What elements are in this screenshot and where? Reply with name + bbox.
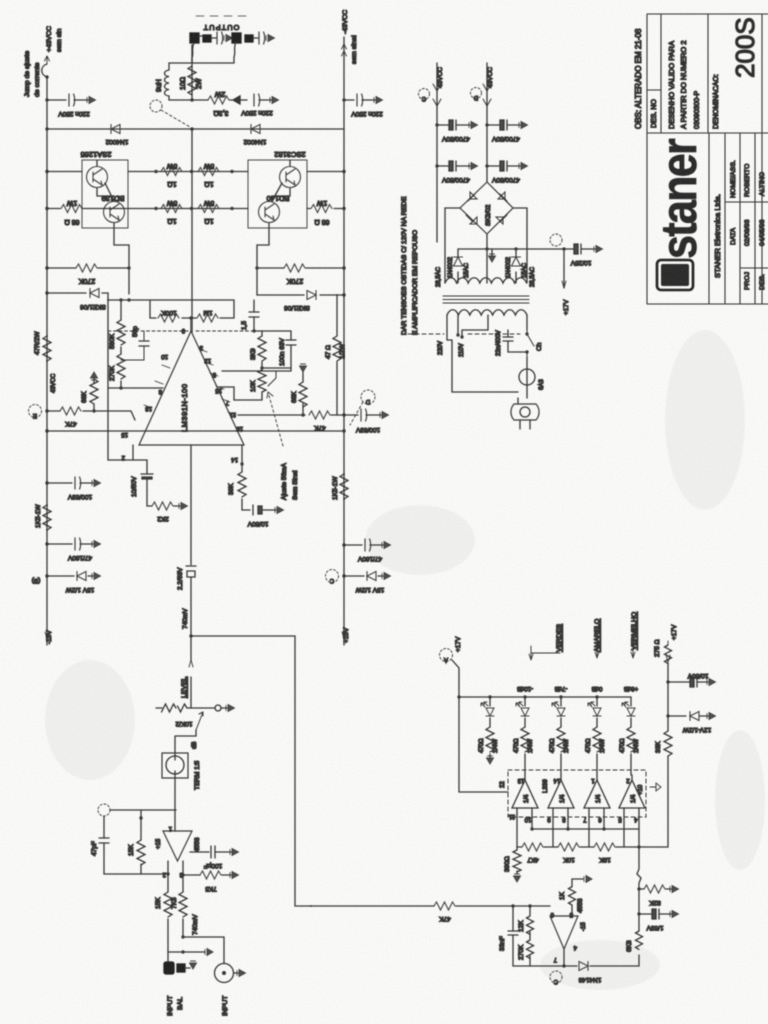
op-amp U3d — [619, 780, 645, 808]
mains dashed line — [408, 333, 520, 335]
svg-text:1/4: 1/4 — [560, 794, 566, 803]
output connector J1 — [190, 33, 211, 43]
svg-text:18: 18 — [145, 405, 152, 411]
svg-text:15: 15 — [121, 431, 128, 437]
resistor 12K — [527, 906, 534, 940]
node D dashed circle — [361, 390, 375, 404]
svg-text:03090300-P: 03090300-P — [694, 91, 701, 129]
svg-text:470Ω: 470Ω — [586, 738, 592, 753]
svg-text:D: D — [365, 398, 370, 404]
pot 10K/2 — [187, 700, 191, 708]
svg-text:VERMELHO: VERMELHO — [631, 612, 638, 650]
svg-text:2K2: 2K2 — [157, 515, 169, 522]
svg-text:39K: 39K — [228, 483, 235, 495]
wire top joint — [191, 45, 193, 100]
ground — [224, 35, 233, 42]
svg-text:470Ω: 470Ω — [550, 738, 556, 753]
cap 10/50V pin14 — [253, 505, 276, 515]
op-amp U2 4558 — [163, 831, 192, 861]
resistor 15K fb — [137, 840, 145, 865]
svg-text:+17V: +17V — [563, 299, 570, 315]
svg-text:5W: 5W — [166, 162, 177, 169]
cap 22n/400V — [503, 330, 520, 352]
node a dashed circle — [98, 804, 110, 816]
svg-text:+15V: +15V — [343, 627, 350, 643]
svg-text:740mV: 740mV — [192, 914, 199, 935]
resistor 1K5-1W left — [43, 505, 51, 530]
svg-text:de corrente: de corrente — [34, 62, 41, 97]
cap 220n right bus — [342, 98, 345, 101]
cap 47/160 left — [45, 542, 48, 545]
connector jack INPUT BAL — [164, 962, 185, 974]
svg-text:12K: 12K — [518, 920, 525, 932]
svg-text:DESENHO VALIDO PARA: DESENHO VALIDO PARA — [667, 41, 676, 129]
svg-text:47R/2W: 47R/2W — [34, 331, 41, 355]
svg-text:C: C — [329, 577, 334, 583]
svg-text:4558: 4558 — [577, 898, 584, 913]
svg-text:10Ω: 10Ω — [180, 77, 187, 90]
svg-text:-7dB: -7dB — [555, 685, 568, 691]
wire right bus — [343, 37, 345, 645]
svg-text:2.2/63V: 2.2/63V — [177, 567, 184, 590]
wires pins right — [219, 371, 291, 400]
svg-text:270K: 270K — [79, 277, 96, 284]
svg-text:1: 1 — [168, 825, 172, 831]
svg-text:270K: 270K — [287, 277, 304, 284]
svg-text:15AC: 15AC — [522, 262, 528, 278]
page frame — [761, 14, 763, 304]
staner logo — [651, 139, 707, 290]
svg-text:1/4W: 1/4W — [600, 739, 606, 753]
svg-text:+43VCC: +43VCC — [46, 26, 53, 52]
diode D1 1N4002 — [111, 125, 120, 134]
resistor 270K — [120, 352, 122, 388]
svg-text:1/4W: 1/4W — [528, 739, 534, 753]
wire 220V to plug — [447, 340, 518, 392]
svg-text:04/05/93: 04/05/93 — [759, 219, 766, 246]
svg-text:1/4W: 1/4W — [493, 739, 499, 753]
feedback wires — [110, 809, 176, 811]
resistor 3,3R 2W — [192, 99, 208, 101]
svg-text:OUTPUT: OUTPUT — [203, 23, 240, 32]
svg-text:5W: 5W — [203, 199, 214, 206]
resistor 33K — [664, 731, 672, 756]
svg-text:11: 11 — [508, 813, 515, 819]
resistor 68R 1W right — [307, 208, 344, 210]
zener 15V 1/2W right — [342, 574, 345, 577]
svg-text:8: 8 — [158, 388, 162, 394]
resistor 1M — [191, 300, 234, 318]
LED DL5 — [630, 697, 632, 706]
wire pin3 down — [182, 861, 184, 937]
svg-text:-43VCC: -43VCC — [342, 10, 349, 34]
svg-text:16: 16 — [236, 425, 243, 431]
inverting bus wire — [532, 814, 639, 829]
LED DL2 — [523, 695, 526, 698]
capacitor 100n 63V — [290, 331, 292, 368]
svg-text:(B): (B) — [32, 577, 41, 584]
right rail 1K5-1W — [340, 474, 348, 499]
node F dashed circle — [150, 100, 162, 112]
svg-text:+10: +10 — [638, 784, 644, 795]
svg-text:SK3/02: SK3/02 — [485, 204, 492, 226]
svg-text:100n 63V: 100n 63V — [279, 338, 286, 366]
op-amp U3b — [548, 780, 574, 808]
svg-text:4558: 4558 — [194, 837, 201, 852]
cap 100/63V left — [45, 481, 48, 484]
LED DL4 — [595, 695, 598, 698]
wire pin2 down — [167, 861, 169, 962]
svg-text:4700/50V: 4700/50V — [441, 135, 469, 142]
svg-text:L339: L339 — [542, 779, 549, 793]
svg-text:-15: -15 — [581, 922, 587, 931]
LED DL3 — [559, 695, 562, 698]
cap 4700/50V r1 left — [435, 123, 438, 126]
pin stubs — [144, 349, 236, 415]
svg-text:4700/50V: 4700/50V — [441, 176, 469, 183]
svg-text:0dB: 0dB — [592, 685, 603, 691]
svg-text:13: 13 — [204, 357, 211, 363]
svg-text:DATA: DATA — [730, 227, 737, 245]
title block borders — [647, 14, 768, 304]
op-amp U4 — [550, 916, 578, 949]
wire left bus — [46, 77, 48, 645]
resistor 1R 5W — [198, 168, 219, 176]
node E dashed — [29, 405, 42, 418]
svg-text:DAR TENSOES OBTIDAS C/ 120V NA: DAR TENSOES OBTIDAS C/ 120V NA REDE — [401, 196, 408, 335]
svg-text:47K: 47K — [314, 424, 326, 431]
resistor 1R 5W row2b — [198, 205, 219, 213]
svg-text:2SC3182: 2SC3182 — [274, 150, 305, 159]
resistor 3K9 — [261, 331, 263, 368]
resistor 47R 1/2W — [336, 331, 338, 415]
op-amp U3c — [584, 780, 610, 808]
svg-text:10/25V: 10/25V — [570, 259, 591, 266]
svg-text:68 Ω: 68 Ω — [315, 218, 330, 225]
resistor 7K5 in — [179, 892, 187, 917]
resistor 47R/2W left bus — [43, 336, 51, 361]
comparator box L339 dashed — [508, 770, 646, 817]
primary taps — [447, 315, 527, 340]
zener 12V stub — [666, 714, 669, 717]
svg-text:A: A — [444, 656, 448, 662]
cap 220n 250V — [254, 94, 260, 106]
svg-text:6A3: 6A3 — [539, 379, 545, 390]
capacitor 1,5 — [253, 307, 255, 331]
cap 2.2/63V in line — [186, 566, 196, 636]
svg-text:1Ω: 1Ω — [167, 217, 176, 224]
wire 6K8 up — [637, 847, 641, 931]
input wire XLR — [183, 937, 224, 963]
svg-text:100pF: 100pF — [204, 862, 222, 869]
arrow mark — [230, 96, 247, 104]
svg-text:470Ω: 470Ω — [514, 738, 520, 753]
diode SKE1/06 left — [45, 291, 48, 294]
svg-text:47 Ω: 47 Ω — [325, 345, 332, 359]
node C rail — [419, 89, 430, 100]
resistor 68K left — [93, 378, 95, 411]
resistor 2K2 — [152, 502, 173, 510]
diode D2 1N4002 — [251, 125, 260, 134]
svg-text:1,5: 1,5 — [241, 321, 248, 330]
node D rail — [471, 88, 482, 99]
svg-text:D: D — [473, 94, 478, 100]
wire jack1 down — [192, 43, 194, 63]
svg-text:270K: 270K — [109, 365, 116, 381]
opamp U4 4558b input wire — [311, 905, 434, 907]
svg-text:SKE1/06: SKE1/06 — [80, 303, 106, 310]
svg-text:68K: 68K — [81, 391, 88, 403]
svg-text:1/63V: 1/63V — [646, 924, 664, 931]
bridge rectifier SK3/02 — [460, 182, 513, 234]
feedback top wire — [108, 300, 254, 318]
svg-text:15: 15 — [215, 387, 222, 393]
svg-text:1/2W: 1/2W — [339, 343, 346, 359]
svg-text:390Ω: 390Ω — [504, 856, 511, 872]
svg-text:2: 2 — [121, 454, 125, 460]
svg-text:3K9: 3K9 — [250, 348, 257, 360]
svg-text:4K7: 4K7 — [527, 856, 539, 863]
plug P1 — [526, 385, 528, 398]
node C marker — [550, 971, 562, 983]
wire to TERM — [175, 736, 196, 753]
cap 47pF — [99, 838, 109, 843]
long rail under triangle — [45, 429, 48, 432]
svg-text:Jump de ajuste: Jump de ajuste — [24, 51, 31, 97]
cap 4700/50V r2 right — [485, 164, 488, 167]
rail right row1 — [307, 171, 344, 173]
left input 47K — [45, 409, 48, 412]
svg-text:1Ω: 1Ω — [204, 217, 213, 224]
switch Ch — [527, 330, 534, 357]
svg-text:200S: 200S — [730, 17, 760, 78]
svg-text:1Ω: 1Ω — [167, 180, 176, 187]
transformer T1 — [445, 278, 527, 283]
inductor L1 9uH — [165, 63, 193, 100]
svg-text:9: 9 — [181, 327, 185, 333]
svg-text:1N4002: 1N4002 — [243, 138, 266, 145]
svg-text:68 Ω: 68 Ω — [65, 218, 80, 225]
svg-text:10K/2: 10K/2 — [175, 720, 192, 727]
svg-text:A PARTIR DO NUMERO 2: A PARTIR DO NUMERO 2 — [679, 41, 688, 130]
svg-text:10: 10 — [524, 816, 531, 822]
wire below left box — [114, 223, 129, 294]
svg-text:C: C — [421, 95, 426, 101]
wire bottom of L — [169, 99, 192, 101]
svg-text:DES.: DES. — [759, 274, 766, 290]
resistor 47K output — [331, 414, 344, 416]
svg-text:Ajuste 56mA: Ajuste 56mA — [281, 462, 288, 500]
svg-text:10: 10 — [161, 353, 168, 359]
svg-text:470Ω: 470Ω — [620, 738, 626, 753]
svg-text:1M: 1M — [203, 309, 212, 316]
rail 1N4002 — [45, 127, 48, 130]
wire TERM to opamp — [174, 778, 176, 831]
svg-text:02/08/93: 02/08/93 — [744, 219, 751, 246]
svg-text:14: 14 — [553, 777, 560, 783]
+17V rail — [458, 249, 564, 288]
svg-text:100/63V: 100/63V — [355, 426, 380, 433]
svg-text:10/50V: 10/50V — [131, 476, 138, 497]
resistor 6K8 — [636, 931, 643, 949]
svg-text:TERM 1:5: TERM 1:5 — [194, 760, 201, 790]
svg-text:STANER Eletronica Ltda.: STANER Eletronica Ltda. — [713, 194, 722, 278]
wire below right box — [257, 223, 269, 295]
cap 4700/50V r2 left — [435, 164, 438, 167]
svg-text:ALTINO: ALTINO — [759, 172, 766, 196]
pin 1 center wire — [190, 445, 192, 565]
svg-text:ROBERTO: ROBERTO — [744, 164, 751, 197]
cap 10/25V — [562, 247, 565, 250]
transistor Q2 BD139 — [104, 202, 125, 223]
svg-text:AMARELO: AMARELO — [594, 619, 601, 652]
cap 10/50V stub — [666, 680, 669, 683]
resistor 82K — [637, 887, 640, 890]
svg-text:33K: 33K — [655, 741, 662, 753]
svg-text:SKE1/06: SKE1/06 — [284, 304, 310, 311]
svg-text:47K: 47K — [439, 915, 451, 922]
svg-text:PROJ: PROJ — [744, 272, 751, 290]
svg-text:11: 11 — [229, 411, 236, 417]
svg-text:BAL: BAL — [177, 997, 184, 1010]
+17V rail meter — [452, 660, 459, 697]
cap 220n on left bus — [45, 98, 48, 101]
fb bottom wire — [513, 965, 564, 967]
svg-text:13: 13 — [517, 777, 524, 783]
LED DL1 — [488, 695, 491, 698]
svg-text:56p: 56p — [132, 326, 139, 337]
svg-text:15K: 15K — [128, 844, 135, 856]
svg-text:OBS: ALTERADO EM 21-08: OBS: ALTERADO EM 21-08 — [634, 28, 643, 129]
svg-text:1Ω: 1Ω — [204, 180, 213, 187]
svg-text:220n 250V: 220n 250V — [351, 110, 383, 117]
output wire + diode 1N4148 — [564, 949, 577, 966]
svg-text:dB: dB — [192, 742, 198, 749]
svg-text:220n 250V: 220n 250V — [58, 110, 90, 117]
diode 1N4002 left — [454, 257, 463, 266]
svg-text:15V 1/2W: 15V 1/2W — [355, 586, 384, 593]
box Q1/Q2 — [82, 160, 128, 228]
svg-text:1/4: 1/4 — [524, 794, 530, 803]
resistor 580K — [120, 300, 122, 352]
wire center vertical — [191, 129, 193, 332]
svg-text:1/4W: 1/4W — [564, 739, 570, 753]
svg-text:4700/50V: 4700/50V — [491, 135, 519, 142]
cap 4700/50V r1 right — [485, 123, 488, 126]
svg-text:DENOMINACAO:: DENOMINACAO: — [713, 74, 720, 129]
svg-text:740mV: 740mV — [182, 608, 189, 629]
svg-text:10K: 10K — [563, 856, 575, 863]
capacitor 56p — [121, 331, 144, 360]
svg-text:+17V: +17V — [455, 636, 462, 652]
emitter rail row1 — [45, 170, 48, 173]
svg-text:100K: 100K — [161, 309, 177, 316]
svg-text:E AMPLIFICADOR EM REPOUSO: E AMPLIFICADOR EM REPOUSO — [412, 230, 419, 335]
svg-text:82K: 82K — [649, 899, 661, 906]
svg-text:580K: 580K — [109, 333, 116, 349]
svg-text:4700/50V: 4700/50V — [491, 176, 519, 183]
svg-text:-10dB: -10dB — [517, 685, 533, 691]
svg-text:1W: 1W — [316, 199, 327, 206]
divider wires down — [517, 814, 639, 847]
cap C out2 — [259, 32, 265, 44]
wire left vertical — [108, 300, 163, 460]
svg-text:15K: 15K — [155, 897, 162, 909]
svg-text:1: 1 — [591, 777, 595, 783]
left bus hook — [45, 56, 50, 64]
svg-text:5s: 5s — [672, 270, 687, 284]
transformer TERM 1:5 — [162, 753, 188, 778]
svg-text:5W: 5W — [166, 199, 177, 206]
svg-text:47pF: 47pF — [91, 841, 98, 856]
svg-text:NOME/ASS.: NOME/ASS. — [730, 160, 737, 198]
resistor 270K left — [45, 266, 48, 269]
wire down to LEVEL — [190, 636, 192, 700]
resistor 1K — [569, 879, 584, 916]
svg-text:220n 250V: 220n 250V — [241, 109, 273, 116]
emitter rail row2 — [47, 208, 248, 210]
cap C out1 — [217, 32, 223, 44]
node circle near +17V — [550, 234, 562, 246]
svg-text:1N4002: 1N4002 — [448, 256, 454, 278]
svg-text:2W: 2W — [214, 90, 225, 97]
svg-text:14: 14 — [231, 456, 238, 462]
svg-text:1W: 1W — [66, 199, 77, 206]
resistor 10R 2W vertical — [188, 66, 196, 95]
svg-text:270K: 270K — [518, 944, 525, 960]
secondary taps — [458, 272, 516, 283]
svg-text:sem sin: sem sin — [56, 28, 63, 52]
transistor Q1 — [87, 167, 108, 188]
op-amp U3a — [512, 780, 538, 808]
svg-text:1/4: 1/4 — [596, 794, 602, 803]
svg-text:10/50V: 10/50V — [687, 672, 708, 679]
svg-text:3,3Ω: 3,3Ω — [214, 109, 229, 116]
bridge wires — [445, 208, 527, 283]
svg-text:68K: 68K — [291, 391, 298, 403]
svg-text:VERDES: VERDES — [556, 624, 563, 652]
svg-text:15AC: 15AC — [464, 262, 470, 278]
svg-text:12V-1/2W: 12V-1/2W — [682, 726, 711, 733]
resistor 15K in — [164, 892, 172, 917]
dashed node line — [108, 330, 188, 332]
cap 1/63V — [637, 912, 640, 915]
fuse F 6A3 — [526, 357, 528, 369]
cap 33nF — [508, 906, 518, 966]
svg-text:470Ω: 470Ω — [479, 738, 485, 753]
connector XLR INPUT — [215, 964, 234, 983]
wire to meter branch — [189, 634, 192, 637]
wire to pins — [234, 368, 291, 400]
svg-text:22n/400V: 22n/400V — [496, 330, 502, 356]
output wire — [238, 414, 305, 416]
svg-text:+6dB: +6dB — [624, 685, 638, 691]
svg-text:+15: +15 — [156, 838, 162, 849]
resistor 7K5 fb — [181, 873, 184, 876]
svg-text:2: 2 — [626, 777, 630, 783]
svg-text:28,5AC: 28,5AC — [436, 266, 442, 287]
resistor 390R — [516, 847, 518, 874]
svg-text:staner: staner — [651, 139, 707, 259]
transistor Q4 BD140 — [259, 202, 280, 223]
diode 1N4002 right — [512, 257, 521, 266]
svg-text:1/4: 1/4 — [631, 794, 637, 803]
dashed right — [196, 330, 254, 332]
resistor 68K right — [302, 377, 304, 415]
pot 10K — [261, 368, 263, 398]
output connector J2 — [232, 33, 253, 43]
input ground row — [168, 951, 205, 953]
